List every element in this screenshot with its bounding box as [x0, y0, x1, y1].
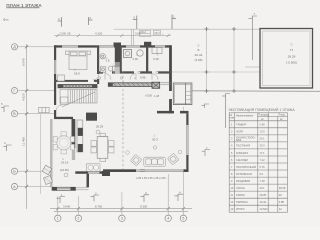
- svg-text:(-0.900): (-0.900): [286, 61, 297, 65]
- svg-text:7.18: 7.18: [260, 179, 266, 183]
- svg-text:17.1: 17.1: [260, 151, 266, 155]
- svg-text:1.48: 1.48: [154, 94, 160, 98]
- svg-text:1: 1: [231, 123, 233, 127]
- svg-text:ОК-1: ОК-1: [155, 32, 161, 35]
- svg-text:12: 12: [230, 200, 233, 204]
- svg-text:8: 8: [231, 172, 233, 176]
- svg-text:1: 1: [57, 217, 59, 221]
- svg-text:ПОСТИРОЧНАЯ: ПОСТИРОЧНАЯ: [236, 165, 256, 169]
- svg-text:Площ.: Площ.: [278, 114, 286, 117]
- svg-text:26.1: 26.1: [260, 137, 266, 141]
- svg-text:11.490: 11.490: [22, 137, 26, 146]
- svg-text:▽: ▽: [197, 44, 200, 48]
- svg-text:4: 4: [167, 217, 169, 221]
- svg-text:40: 40: [279, 193, 282, 197]
- svg-text:Площадь: Площадь: [258, 114, 270, 117]
- svg-text:ВАЯ: ВАЯ: [236, 138, 241, 142]
- svg-text:13.9: 13.9: [260, 130, 266, 134]
- svg-text:ТАМБУР: ТАМБУР: [236, 123, 247, 127]
- svg-text:(3.88): (3.88): [194, 58, 202, 62]
- svg-text:ЭКСПЛИКАЦИЯ ПОМЕЩЕНИЙ 1 ЭТАЖА: ЭКСПЛИКАЦИЯ ПОМЕЩЕНИЙ 1 ЭТАЖА: [228, 108, 295, 112]
- svg-text:ГАРАЖ: ГАРАЖ: [236, 193, 245, 197]
- svg-text:0.000: 0.000: [146, 94, 153, 98]
- svg-text:1: 1: [173, 15, 175, 19]
- svg-text:ОК-2: ОК-2: [141, 31, 147, 34]
- svg-text:САНУЗЕЛ: САНУЗЕЛ: [236, 158, 248, 162]
- svg-text:ПЛАН 1 ЭТАЖА: ПЛАН 1 ЭТАЖА: [6, 3, 42, 8]
- svg-text:7.12: 7.12: [260, 158, 266, 162]
- svg-text:9.540: 9.540: [22, 58, 26, 66]
- svg-text:4: 4: [231, 144, 233, 148]
- svg-text:ИТОГО: ИТОГО: [236, 207, 245, 211]
- svg-text:2: 2: [77, 217, 79, 221]
- svg-text:3.18: 3.18: [153, 57, 159, 61]
- svg-text:КОТЕЛЬНАЯ: КОТЕЛЬНАЯ: [236, 172, 252, 176]
- svg-text:7: 7: [254, 12, 256, 16]
- svg-text:12: 12: [279, 207, 282, 211]
- svg-text:ТЕРРАСА: ТЕРРАСА: [236, 200, 248, 204]
- svg-text:2.48: 2.48: [260, 123, 266, 127]
- svg-text:м²: м²: [261, 118, 264, 121]
- svg-text:4: 4: [58, 17, 60, 21]
- svg-text:40.44: 40.44: [195, 53, 203, 57]
- svg-text:3: 3: [133, 16, 135, 20]
- svg-text:Наименование: Наименование: [236, 115, 254, 118]
- svg-text:8.760: 8.760: [95, 205, 103, 209]
- svg-text:28.28: 28.28: [96, 125, 103, 129]
- svg-text:4.620: 4.620: [22, 93, 26, 101]
- svg-text:4: 4: [4, 141, 6, 145]
- svg-text:28.28: 28.28: [260, 193, 267, 197]
- svg-text:САУНА: САУНА: [236, 186, 245, 190]
- svg-text:5: 5: [1, 102, 3, 106]
- svg-text:3.08 .05: 3.08 .05: [60, 32, 71, 36]
- svg-text:Г: Г: [14, 89, 16, 93]
- svg-text:6: 6: [231, 158, 233, 162]
- svg-text:В: В: [13, 112, 16, 116]
- svg-text:3.640: 3.640: [63, 205, 71, 209]
- svg-text:9.96: 9.96: [140, 76, 146, 80]
- svg-text:4.120: 4.120: [95, 32, 103, 36]
- svg-text:9.300: 9.300: [140, 205, 148, 209]
- svg-text:3.88: 3.88: [279, 200, 285, 204]
- svg-text:3.08: 3.08: [135, 32, 141, 36]
- svg-text:28.28: 28.28: [279, 186, 286, 190]
- svg-text:5: 5: [231, 151, 233, 155]
- svg-text:КЛАДОВАЯ: КЛАДОВАЯ: [236, 179, 250, 183]
- svg-text:5.76: 5.76: [260, 165, 266, 169]
- svg-text:ГОСТИНАЯ: ГОСТИНАЯ: [236, 144, 250, 148]
- svg-text:2: 2: [231, 130, 233, 134]
- svg-text:30.3: 30.3: [260, 144, 266, 148]
- svg-text:5.2: 5.2: [260, 172, 264, 176]
- svg-text:14.520: 14.520: [260, 207, 268, 211]
- svg-text:Ф н: Ф н: [3, 18, 9, 22]
- svg-text:28.28: 28.28: [288, 55, 296, 59]
- svg-text:(24.65): (24.65): [60, 168, 69, 172]
- svg-text:13: 13: [230, 207, 233, 211]
- svg-text:30.3: 30.3: [152, 138, 158, 142]
- svg-text:2.46: 2.46: [133, 57, 139, 61]
- svg-text:10: 10: [230, 186, 233, 190]
- svg-text:9: 9: [231, 179, 233, 183]
- svg-text:пом.: пом.: [230, 117, 235, 120]
- svg-text:11: 11: [230, 193, 233, 197]
- svg-text:Г1: Г1: [290, 48, 294, 52]
- svg-text:40.44: 40.44: [260, 200, 267, 204]
- svg-text:5: 5: [182, 217, 184, 221]
- svg-text:4.08 1.05 2.05 1.08 2.145: 4.08 1.05 2.05 1.08 2.145: [136, 176, 166, 180]
- svg-text:Д: Д: [13, 45, 16, 49]
- svg-text:18.9: 18.9: [74, 72, 80, 76]
- svg-text:КОМНАТА: КОМНАТА: [236, 151, 249, 155]
- svg-text:3: 3: [121, 217, 123, 221]
- svg-text:Б: Б: [197, 48, 199, 52]
- svg-text:ХОЛЛ: ХОЛЛ: [236, 130, 243, 134]
- svg-text:22.1: 22.1: [260, 186, 266, 190]
- svg-text:7: 7: [231, 165, 233, 169]
- svg-text:24.19: 24.19: [61, 161, 69, 165]
- svg-text:м²: м²: [280, 118, 283, 121]
- svg-text:А: А: [13, 185, 16, 189]
- svg-text:Б: Б: [13, 170, 16, 174]
- svg-text:3: 3: [231, 137, 233, 141]
- svg-text:2: 2: [90, 16, 92, 20]
